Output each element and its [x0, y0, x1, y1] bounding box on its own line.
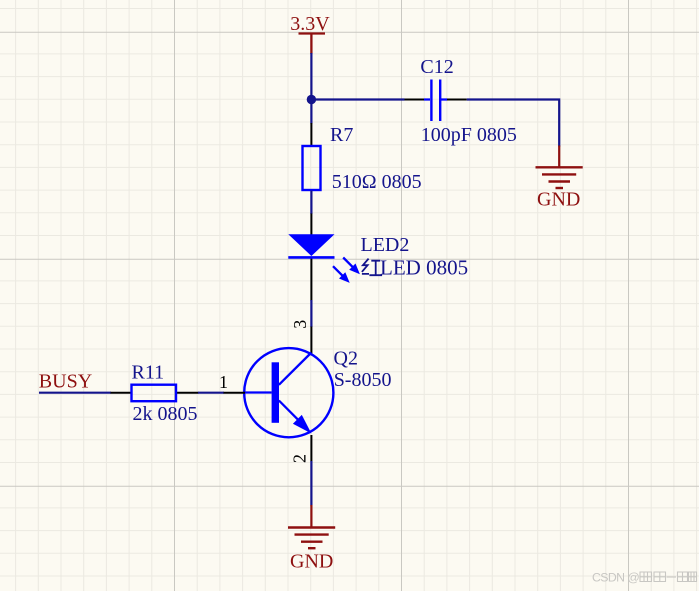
svg-text:1: 1 — [219, 372, 228, 392]
svg-text:2k 0805: 2k 0805 — [133, 403, 198, 425]
svg-text:3.3V: 3.3V — [290, 13, 330, 35]
node junction — [307, 95, 316, 104]
svg-text:GND: GND — [290, 551, 333, 573]
svg-text:LED2: LED2 — [361, 234, 410, 256]
wire: Q2 emitter to GND — [310, 461, 312, 506]
svg-text:R7: R7 — [330, 124, 353, 146]
wire: R11 to Q2 base — [198, 392, 224, 394]
resistor R7 — [303, 123, 321, 190]
capacitor C12 — [405, 80, 467, 122]
svg-text:LED 0805: LED 0805 — [380, 256, 468, 280]
svg-text:3: 3 — [290, 320, 310, 329]
svg-text:GND: GND — [537, 189, 580, 211]
pin 2 — [290, 435, 312, 463]
wire: C12 to corner and down to GND — [467, 100, 560, 147]
svg-text:CSDN @: CSDN @ — [592, 571, 639, 585]
wire: R7 to LED2 — [310, 191, 312, 215]
transistor Q2 — [244, 348, 333, 437]
wire: LED2 to Q2 collector — [310, 300, 312, 327]
led LED2 — [288, 214, 360, 302]
svg-text:S-8050: S-8050 — [334, 369, 392, 391]
svg-text:R11: R11 — [132, 362, 165, 384]
svg-text:Q2: Q2 — [334, 347, 358, 369]
wire: junction to C12 — [311, 98, 404, 100]
svg-text:510Ω 0805: 510Ω 0805 — [332, 171, 422, 193]
power port 3.3V — [299, 34, 326, 55]
wire: BUSY to R11 — [39, 392, 111, 394]
ground GND right — [536, 146, 583, 189]
svg-text:100pF 0805: 100pF 0805 — [421, 124, 517, 146]
pin 3 — [290, 320, 312, 354]
svg-text:2: 2 — [290, 454, 310, 463]
resistor R11 — [111, 385, 199, 402]
svg-text:C12: C12 — [420, 56, 453, 78]
label red LED 0805 (Chinese char drawn as strokes) — [362, 256, 468, 280]
svg-text:BUSY: BUSY — [39, 371, 92, 393]
wire: 3.3V to junction — [310, 53, 312, 124]
ground GND bottom — [288, 505, 335, 548]
pin 1 — [219, 372, 245, 393]
watermark CSDN — [592, 571, 697, 585]
